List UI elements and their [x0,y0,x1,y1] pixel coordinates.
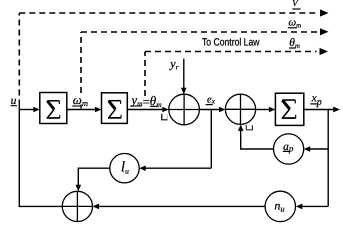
wire x_p output [304,109,334,111]
label u (input) [11,95,18,107]
label Sigma of block 3 [282,100,296,118]
node omega_m stub to line [80,105,82,110]
wire n_u output to bottom sum circle [98,205,266,207]
wire circle2 to sum block 3 [256,109,271,111]
label Sigma of block 2 [108,101,121,118]
node e_x tap down [210,110,212,169]
sum block 1 (integrator) [40,93,67,124]
arrow V output [320,9,329,16]
wire dashed tap of theta_m: vertical [144,52,146,97]
wire dashed line V to control law (top) [19,12,317,14]
arrow omega_m output [320,28,329,35]
sum block 3 (integrator) [275,93,303,125]
wire feedback to a_p gain [309,148,329,150]
wire l_u to bottom sum circle [78,168,110,186]
sum junction circle 1 [169,94,200,125]
wire dashed line theta_m to control law [145,51,317,53]
arrow theta_m output [320,48,329,55]
sum junction circle bottom [62,191,92,221]
gain circle a_p [274,134,304,164]
label theta_m [289,37,300,50]
gain circle n_u [265,191,295,221]
sum junction circle 2 [225,94,255,124]
label e_x [206,95,216,106]
wire circle1 to circle2 [199,109,221,111]
label omega_m (signal between blocks) [72,93,88,108]
node u junction: vertical solid stub above line [18,100,20,110]
sum block 2 (integrator) [102,93,128,124]
wire e_x tap to l_u gain [144,167,211,169]
node x_p feedback tap: vertical down [327,110,329,207]
label omega_m [288,17,301,30]
wire feedback to n_u gain [301,205,328,207]
wire u into sum block 1 [19,109,35,111]
wire block1 to block2 [67,109,97,111]
label x_p [310,93,321,109]
svg-text:To Control Law: To Control Law [202,37,260,49]
label Sigma of block 1 [47,101,60,118]
minus mark at sum circle 2 [246,125,252,130]
wire dashed tap of u: vertical from u node up [18,13,20,96]
wire dashed line omega_m to control law [81,31,317,33]
wire y_r input down into circle 1 [183,59,185,89]
label y_m = theta_m [130,93,163,109]
label V [292,0,301,9]
wire a_p output up into circle 2 [241,131,274,150]
gain circle l_u [110,154,139,183]
wire dashed tap of omega_m: vertical [80,32,82,93]
minus mark at sum circle 1 [162,114,168,120]
wire block2 to sum circle 1 [127,109,164,111]
label a_p [283,141,294,154]
svg-text:=: = [143,95,150,109]
wire bottom sum circle back to u node [19,110,62,207]
